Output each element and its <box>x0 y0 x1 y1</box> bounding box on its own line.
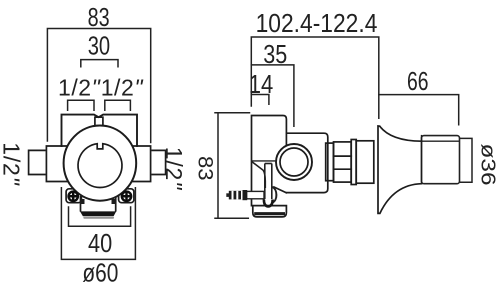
svg-text:83: 83 <box>88 2 110 32</box>
svg-text:40: 40 <box>88 228 112 258</box>
svg-text:83: 83 <box>193 156 217 181</box>
svg-text:14: 14 <box>249 69 274 99</box>
svg-text:66: 66 <box>407 66 429 96</box>
svg-text:1/2": 1/2" <box>58 75 102 101</box>
svg-text:ø60: ø60 <box>82 258 118 288</box>
svg-text:ø36: ø36 <box>476 144 498 186</box>
svg-text:1/2": 1/2" <box>161 147 187 191</box>
svg-text:1/2": 1/2" <box>101 75 145 101</box>
svg-text:1/2": 1/2" <box>0 142 24 186</box>
svg-text:35: 35 <box>263 39 287 69</box>
svg-text:102.4-122.4: 102.4-122.4 <box>256 8 378 38</box>
svg-text:30: 30 <box>88 31 110 61</box>
